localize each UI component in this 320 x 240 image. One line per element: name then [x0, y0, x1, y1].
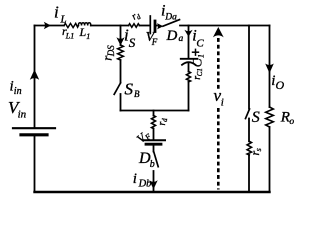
svg-text:S: S [125, 79, 134, 98]
svg-text:i: i [221, 97, 224, 109]
svg-text:C: C [196, 37, 204, 49]
svg-text:S: S [129, 35, 136, 50]
svg-text:i: i [133, 171, 137, 187]
svg-text:L1: L1 [65, 32, 74, 41]
svg-text:d: d [161, 118, 169, 122]
svg-text:D: D [166, 28, 178, 44]
svg-text:1: 1 [197, 54, 206, 58]
svg-text:F: F [151, 37, 158, 47]
svg-text:in: in [14, 86, 22, 97]
svg-text:in: in [18, 108, 27, 120]
svg-text:1: 1 [86, 32, 90, 41]
svg-text:b: b [150, 159, 155, 170]
svg-text:s: s [254, 148, 263, 151]
svg-text:B: B [134, 89, 140, 99]
svg-text:Db: Db [138, 179, 152, 190]
svg-text:i: i [54, 3, 59, 22]
svg-text:O: O [276, 78, 285, 92]
svg-text:C1: C1 [196, 68, 204, 76]
svg-text:Da: Da [164, 13, 177, 23]
svg-text:o: o [289, 117, 294, 127]
svg-text:S: S [252, 109, 260, 126]
svg-text:a: a [179, 34, 184, 44]
svg-text:C: C [189, 58, 204, 67]
svg-text:DS: DS [106, 45, 116, 57]
